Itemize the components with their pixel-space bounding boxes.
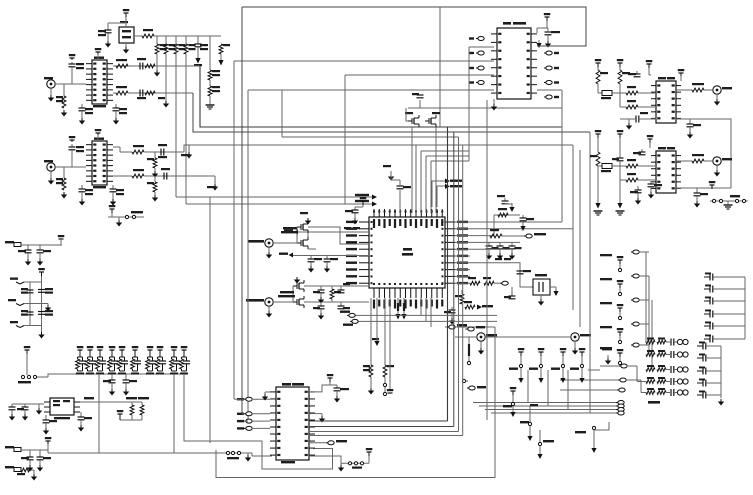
resistor R4 (174, 44, 185, 54)
capacitor C28 (345, 207, 359, 213)
capacitor C17 (21, 310, 34, 316)
ground J2 (48, 171, 54, 185)
jumper JP6 (340, 311, 355, 318)
resistor R9 (145, 64, 155, 68)
wire R10 right (128, 92, 193, 94)
net label V1 (467, 337, 470, 365)
power flag RP (117, 410, 124, 420)
capacitor array CA5 (704, 322, 745, 330)
wire O2 v2 (619, 161, 621, 203)
wire C3 down (71, 67, 73, 84)
resistor R5 (184, 44, 195, 54)
wire RC col9 down (173, 374, 175, 453)
ground C11 (110, 192, 116, 206)
capacitor C13 (161, 168, 170, 180)
capacitor array CB3 (697, 367, 721, 375)
connector J6 (571, 333, 591, 341)
ground C26 (27, 460, 33, 472)
wire busR3 (458, 137, 460, 432)
wire R6c down (209, 96, 211, 105)
ground RA (718, 399, 724, 406)
ground C23 (22, 410, 28, 421)
resistor RN3b (657, 365, 666, 371)
power flag JRa (617, 256, 624, 272)
wire C44 link (620, 118, 656, 119)
capacitor C16 (21, 288, 34, 294)
wire fan4 (431, 161, 469, 213)
ground J1 (48, 88, 54, 102)
capacitor C9 (69, 144, 85, 152)
resistor RN1a (646, 338, 655, 344)
wire J3 out (273, 242, 297, 244)
wire U4 in2 (293, 255, 369, 257)
ground C22 (9, 410, 15, 421)
ground PU3 (560, 378, 565, 383)
jumper U8L2 (237, 412, 270, 416)
resistor RN2b (657, 350, 666, 356)
pull network PL2 (520, 406, 532, 436)
ground Q2 (294, 277, 300, 284)
wire VR1 out (134, 35, 142, 37)
jumper JB4 (473, 370, 624, 405)
label bus1 end (355, 194, 377, 200)
power flag U4 drop (387, 389, 394, 393)
capacitor C3 (69, 62, 85, 69)
wire busRB1 (645, 252, 647, 342)
buffer U5 (491, 22, 537, 99)
capacitor C2 (195, 36, 209, 50)
wire busR2 (453, 132, 455, 427)
power flag O1b (617, 59, 624, 67)
power flag C9 (69, 136, 76, 142)
capacitor C19 (38, 310, 53, 316)
jumper U8L3 (237, 419, 270, 423)
regulator U3 (50, 398, 74, 419)
wire bus x282 (282, 90, 459, 137)
ferrite bead FB1 (5, 241, 21, 247)
capacitor array CA1 (704, 273, 745, 281)
power flag U6t (678, 69, 685, 81)
wire mid vertical2 (29, 282, 31, 326)
ground C50 (334, 391, 340, 403)
ground J5 (478, 341, 484, 355)
power flag U1 (95, 48, 102, 60)
resistor R15 (147, 152, 157, 168)
ground C31 (308, 262, 314, 273)
node bus2 (186, 203, 372, 205)
wire U8 in2 (242, 413, 244, 415)
connector J2 (44, 160, 55, 171)
pull network PU3 (551, 356, 565, 378)
test point row TPL (224, 451, 246, 459)
resistor-cap pair RC9 (170, 350, 180, 375)
test point row TPB (341, 462, 369, 469)
connector pin PN1 (674, 339, 688, 344)
arrow U5 tr (536, 40, 541, 48)
ground VR1 (123, 47, 129, 54)
ground R15 (152, 168, 158, 178)
capacitor array CA2 (704, 285, 745, 293)
ground PL3 (537, 454, 542, 459)
inductor L2 (598, 164, 626, 173)
wire busV487 (486, 100, 488, 420)
wire Q gate bus (408, 107, 562, 109)
ground C47 (635, 193, 641, 205)
net stub NET1 (10, 278, 30, 285)
resistor R27 (363, 298, 373, 377)
resistor R30 (618, 67, 630, 84)
resistor R26 (464, 301, 475, 309)
ground PU2 (538, 378, 543, 383)
capacitor C1 (98, 30, 112, 36)
wire U4 pin drop c (425, 298, 427, 321)
wire U2 out2 (113, 175, 132, 177)
capacitor CN3 (666, 366, 674, 373)
resistor R12 (56, 167, 66, 190)
wire left low2 (358, 320, 497, 322)
pull network PL4 (575, 426, 596, 448)
net arrow L2 (279, 253, 293, 258)
inductor L1 (598, 91, 626, 100)
resistor R10 (116, 86, 128, 95)
wire mid row2 (24, 303, 48, 305)
power flag JRe (617, 349, 624, 365)
capacitor C7 (137, 90, 146, 100)
wire xtal route (495, 263, 533, 287)
wire O2 v1 (597, 166, 599, 203)
capacitor C29 (391, 174, 411, 213)
resistor R3 (164, 44, 175, 54)
microcontroller U4 (369, 217, 445, 288)
wire U3 left (30, 403, 44, 405)
wire cap C1 bottom lead (107, 33, 109, 41)
wire +5V rail (154, 35, 221, 37)
wire U2 out1 (113, 146, 120, 148)
wire U8 in1 (234, 398, 244, 400)
wire bottom bus a (216, 327, 495, 478)
resistor R1 (142, 29, 154, 38)
wire U3 out (80, 397, 99, 402)
capacitor C39 (517, 270, 532, 274)
latch U8 (270, 383, 315, 463)
capacitor C37 (520, 215, 535, 221)
amplifier U7 (651, 147, 681, 193)
wire U8 d3 (309, 431, 459, 433)
wire RC col10 down (184, 374, 333, 469)
capacitor C27 (37, 450, 52, 460)
wire to J8 (704, 160, 712, 162)
power flag PL1 (510, 387, 517, 395)
ferrite bead FB3 (5, 466, 21, 472)
jumper U5R97 (544, 95, 559, 99)
label bus2 end (355, 200, 377, 207)
ground PL4 (591, 448, 596, 453)
wire U8 vcc (309, 385, 330, 392)
label xtal net (495, 258, 511, 260)
jumper JB5 (479, 370, 624, 408)
wire busRB3 (651, 300, 653, 370)
power flag PU4 (579, 348, 586, 356)
ground C21 (123, 383, 129, 396)
resistor R16 (147, 176, 157, 192)
wire U4 r7 (455, 269, 470, 271)
power flag U2 (95, 129, 102, 141)
wire C9 down (71, 150, 73, 167)
wire busR6 (572, 145, 574, 310)
label Q1 (281, 227, 298, 233)
resistor R8 (116, 59, 128, 68)
ground C4 (79, 111, 85, 125)
jumper JP4 (465, 326, 485, 331)
ground C20 (109, 383, 115, 396)
wire PL4 route (594, 422, 609, 430)
wire U8 q1 (309, 456, 341, 463)
ground C41 (449, 313, 455, 325)
wire busR1 (447, 127, 449, 421)
resistor R38 (620, 173, 656, 182)
jumper U5L38 (469, 37, 484, 41)
resistor R6c (208, 86, 220, 96)
resistor R34 (692, 83, 704, 92)
wire bus x345 (344, 75, 346, 204)
resistor RN2a (646, 350, 655, 356)
jumper JRd (600, 322, 649, 328)
arrow R6 down (218, 54, 223, 66)
ground C27 (37, 460, 43, 472)
wire Q2 route (304, 285, 369, 287)
power flag PU1 (518, 348, 525, 356)
op-amp U2 (86, 138, 113, 189)
net arrow B2 (395, 298, 400, 320)
power flag O1c (646, 60, 653, 75)
power flag C3 (69, 54, 76, 60)
arrow C38 (505, 203, 515, 212)
resistor R4 lead (175, 36, 177, 44)
capacitor C40 (504, 287, 516, 299)
wire bus x176 down (175, 36, 177, 197)
capacitor CN2 (666, 351, 674, 358)
wire ch1 sig2 (193, 93, 590, 132)
resistor R21 (498, 208, 508, 217)
wire mid row1 (24, 281, 42, 283)
ferrite bead FB2 (5, 446, 21, 452)
wire U5 in2 (234, 60, 494, 62)
capacitor C12 (158, 144, 167, 158)
capacitor C35 (313, 302, 325, 309)
resistor-cap pair RC4 (108, 350, 118, 375)
capacitor C36 (338, 302, 351, 309)
ground C10 (79, 192, 85, 206)
wire FB2 right (21, 449, 48, 451)
power flag U5 (537, 13, 550, 33)
jumper JP2 (500, 281, 508, 285)
capacitor CN1 (666, 339, 674, 346)
power flag RC4 (109, 346, 116, 356)
ground C14 (25, 253, 31, 266)
power flag TP1 (24, 346, 31, 375)
resistor R37 (626, 159, 656, 168)
resistor R2 lead (156, 36, 158, 44)
power flag RC3 (97, 346, 104, 356)
wire U8 in3 (244, 420, 248, 422)
capacitor Cx489 (486, 242, 499, 249)
power flag O2c (647, 135, 654, 148)
capacitor C25 (78, 412, 93, 420)
resistor-cap pair RC1 (76, 350, 86, 375)
power flag RC9 (171, 346, 178, 356)
wire U6 fb (676, 119, 731, 188)
wire J2 to U2 (55, 166, 86, 168)
wire U4 nettop1 (432, 181, 445, 207)
ground C48 (648, 187, 654, 199)
net stub NET2 (8, 299, 30, 306)
capacitor array CA4 (704, 310, 745, 318)
resistor RN1b (657, 338, 666, 344)
wire cap C1 top lead (107, 23, 109, 30)
wire U4 r5 (455, 255, 470, 257)
wire to J7 (704, 89, 712, 91)
jumper U5R53 (544, 51, 559, 55)
ground Cx512 (509, 249, 515, 260)
ground tap ch2 (181, 145, 192, 159)
capacitor array CB5 (697, 391, 721, 399)
ground R19 (31, 470, 37, 481)
connector J5 (477, 333, 497, 341)
ground J7 (714, 94, 720, 106)
capacitor C26 (21, 450, 34, 460)
wire left low1 (355, 314, 497, 316)
capacitor C31 (308, 256, 323, 262)
resistor-cap pair RC10 (180, 350, 190, 375)
power flag RC10 (181, 346, 188, 356)
resistor-cap pair RC7 (146, 350, 156, 375)
wire U1 out2 (113, 92, 116, 94)
ground TPR (724, 201, 733, 209)
capacitor C41 (444, 307, 456, 313)
capacitor C34 (338, 283, 351, 293)
wire FB1 right (21, 244, 62, 246)
resistor RN5b (657, 388, 666, 394)
wire bank to ic (98, 374, 100, 453)
wire PU4 route (588, 369, 600, 371)
wire busR8 (462, 145, 464, 436)
capacitor C22 (9, 404, 31, 410)
ground Y1 bottom (538, 295, 544, 306)
wire U4 pin drop a (389, 298, 391, 390)
capacitor C46b (612, 138, 624, 161)
wire VR1 top loop h (108, 22, 126, 24)
jumper JP3 (445, 324, 495, 329)
capacitor C38 (497, 195, 509, 204)
wire VR1 gnd stem (125, 43, 127, 47)
node R28 (383, 377, 386, 396)
wire fan3 (426, 156, 469, 213)
wire busRB2 (648, 276, 650, 355)
jumper JP7 (309, 440, 347, 445)
transistor Q2b (293, 286, 304, 308)
op-amp U1 (86, 57, 113, 108)
resistor-cap pair RC3 (96, 350, 106, 375)
wire U5 in1b (469, 46, 494, 48)
power flag PU3 (560, 348, 567, 356)
wire U4 r3a (455, 241, 487, 243)
capacitor Cx512 (509, 242, 522, 249)
transistor Q1b (297, 227, 308, 249)
wire fan2 (421, 151, 469, 213)
wire top box drop (439, 7, 441, 127)
jumper U8L4 (237, 426, 270, 430)
ground C49 (694, 196, 700, 208)
ground tap ch2b (207, 176, 218, 191)
capacitor C4 (79, 104, 94, 114)
arrow C2 down (194, 47, 202, 66)
capacitor C44 (636, 112, 648, 123)
ground R27 (368, 377, 374, 395)
wire Q1b out (308, 248, 316, 250)
pins U3 (44, 402, 80, 412)
wire bus x248 (247, 90, 249, 421)
power flag RC6 (132, 346, 139, 356)
ground R12 (61, 192, 67, 199)
pull network PU1 (509, 356, 523, 378)
resistor R19 (17, 468, 31, 475)
capacitor C23 (17, 404, 29, 410)
capacitor array CA3 (704, 297, 745, 305)
resistor R39 (692, 154, 704, 163)
node bus1 (176, 196, 372, 198)
resistor R14 (132, 169, 144, 178)
wire U5 out1 (537, 89, 562, 91)
wire RA bus (744, 277, 746, 339)
jumper JRc (600, 298, 649, 304)
wire U4 pin drop b (420, 298, 422, 315)
wire O1 v2 (619, 84, 621, 107)
capacitor C24 (43, 415, 58, 423)
ground PU1 (518, 378, 523, 383)
capacitor C21 (123, 374, 138, 383)
wire ch1 sig1 (200, 66, 562, 127)
wire R6b mid (209, 80, 211, 86)
resistor R11 (145, 91, 155, 95)
connector pin PN4 (674, 379, 688, 384)
transistor Q2a (293, 280, 304, 292)
net arrow L1 (284, 230, 298, 235)
wire fan1 (415, 145, 417, 213)
resistor R22 (490, 229, 524, 238)
ground R7 (61, 110, 67, 117)
capacitor C11 (110, 185, 125, 195)
capacitor array CA6 (704, 335, 745, 343)
wire U8 d2 (309, 426, 454, 428)
wire O1 v1 (597, 84, 599, 93)
jumper JB3 (560, 388, 625, 392)
ground C15 (37, 253, 43, 266)
resistor R6b (208, 70, 220, 80)
ground TPL (245, 453, 251, 462)
ground C33 (318, 293, 324, 304)
wire U4 r2 (455, 228, 573, 230)
net label B1 (372, 298, 380, 346)
capacitor C18 (38, 288, 53, 294)
wire U7 fb (676, 187, 731, 189)
ground C28 (352, 205, 363, 225)
power flag O2a (595, 130, 602, 138)
ground R9 (154, 66, 160, 77)
resistor R7 (56, 84, 66, 108)
resistor RN3a (646, 365, 655, 371)
connector J8 (713, 157, 732, 165)
resistor R35 (590, 138, 600, 166)
